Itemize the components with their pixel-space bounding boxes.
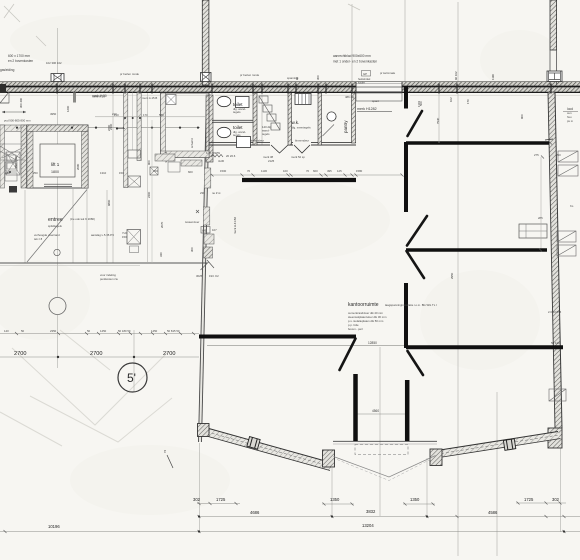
svg-text:2400: 2400: [147, 191, 151, 198]
svg-text:2350: 2350: [50, 329, 57, 333]
svg-text:170: 170: [466, 99, 470, 104]
svg-text:2070: 2070: [160, 221, 164, 228]
svg-text:300 400: 300 400: [19, 97, 23, 108]
svg-text:50: 50: [21, 329, 25, 333]
svg-text:210: 210: [114, 113, 119, 117]
svg-text:300: 300: [316, 75, 320, 80]
svg-text:spikittegels: spikittegels: [48, 224, 62, 228]
svg-text:50 120: 50 120: [551, 341, 560, 345]
svg-text:107: 107: [212, 228, 217, 232]
svg-text:aanrechtblad 900x600 mm: aanrechtblad 900x600 mm: [333, 54, 371, 58]
svg-text:1725: 1725: [216, 497, 226, 502]
svg-text:1800: 1800: [51, 170, 59, 174]
svg-text:1200: 1200: [66, 105, 70, 112]
svg-text:gasleiding: gasleiding: [0, 68, 15, 72]
svg-text:pantry: pantry: [343, 120, 348, 133]
svg-text:70: 70: [247, 169, 251, 173]
svg-text:(zie ook tek K 2080): (zie ook tek K 2080): [70, 217, 95, 221]
svg-text:4x30: 4x30: [218, 159, 225, 163]
svg-text:285: 285: [538, 216, 543, 220]
svg-text:1103: 1103: [417, 101, 421, 107]
svg-text:1190: 1190: [491, 74, 495, 80]
svg-text:250: 250: [33, 171, 38, 175]
svg-text:ps m: ps m: [567, 119, 574, 123]
svg-text:2200: 2200: [107, 124, 111, 131]
svg-text:dlg. meertegels: dlg. meertegels: [292, 126, 312, 130]
svg-text:5': 5': [127, 371, 136, 385]
svg-text:302: 302: [552, 497, 560, 502]
svg-text:4950: 4950: [50, 112, 57, 116]
svg-text:aanslag L.5.35.P.5: aanslag L.5.35.P.5: [91, 233, 114, 237]
svg-text:kantoorruimte: kantoorruimte: [348, 302, 379, 308]
svg-text:merk 52 sp: merk 52 sp: [291, 155, 305, 159]
svg-text:275: 275: [534, 153, 539, 157]
svg-text:2950: 2950: [450, 272, 454, 279]
svg-text:100: 100: [283, 169, 288, 173]
svg-text:102: 102: [449, 97, 453, 102]
svg-text:50 815 50: 50 815 50: [167, 329, 180, 333]
svg-text:600 x 1700 mm: 600 x 1700 mm: [8, 54, 30, 58]
svg-text:1725: 1725: [524, 497, 534, 502]
svg-text:pvd 900-805-800 mm: pvd 900-805-800 mm: [4, 119, 31, 123]
svg-text:96 102: 96 102: [454, 71, 458, 80]
svg-text:4560: 4560: [372, 409, 379, 413]
svg-text:1350: 1350: [410, 497, 420, 502]
svg-text:schacht: schacht: [190, 138, 194, 148]
svg-text:1310: 1310: [100, 171, 107, 175]
svg-text:50: 50: [87, 329, 91, 333]
svg-text:2080: 2080: [76, 163, 80, 170]
svg-text:spanning: spanning: [287, 76, 299, 80]
svg-text:13204: 13204: [362, 523, 374, 528]
svg-text:en 2 bovenkosten: en 2 bovenkosten: [8, 59, 33, 63]
svg-text:binnendeur: binnendeur: [250, 139, 264, 143]
svg-text:1130: 1130: [261, 169, 267, 173]
svg-text:fro: fro: [570, 204, 574, 208]
svg-text:102 306 102: 102 306 102: [46, 61, 62, 65]
svg-text:600: 600: [188, 170, 193, 174]
svg-text:50 180 50: 50 180 50: [118, 329, 131, 333]
svg-text:2125: 2125: [268, 159, 275, 163]
svg-text:4586: 4586: [488, 510, 498, 515]
svg-text:9800: 9800: [107, 199, 111, 206]
svg-text:238: 238: [200, 191, 205, 195]
svg-text:penikosten zie: penikosten zie: [100, 277, 118, 281]
svg-text:w.k.: w.k.: [292, 120, 300, 125]
svg-text:300: 300: [190, 247, 194, 252]
svg-text:tegels: tegels: [233, 110, 241, 114]
svg-text:merk H1282: merk H1282: [357, 107, 377, 111]
svg-text:900: 900: [520, 114, 524, 119]
svg-text:met 1 onder- en 2 bovenkasten: met 1 onder- en 2 bovenkasten: [333, 60, 377, 64]
svg-text:495: 495: [327, 169, 332, 173]
svg-text:1350: 1350: [330, 497, 340, 502]
svg-text:486 stg: 486 stg: [345, 95, 355, 99]
svg-text:580: 580: [159, 113, 164, 117]
svg-text:1450: 1450: [151, 329, 158, 333]
svg-text:binnendeur: binnendeur: [295, 139, 309, 143]
svg-text:900: 900: [147, 160, 151, 165]
svg-text:140: 140: [4, 329, 9, 333]
svg-text:boven - peil: boven - peil: [348, 327, 363, 331]
svg-text:tegels: tegels: [262, 132, 270, 136]
svg-text:pr kelmmale: pr kelmmale: [380, 71, 396, 75]
svg-text:1450: 1450: [100, 329, 107, 333]
svg-text:1500: 1500: [220, 169, 227, 173]
svg-text:tek z 8: tek z 8: [34, 237, 43, 241]
svg-text:laagspanninginstallatie i.o.: laagspanninginstallatie i.o.m. BG WG TL …: [385, 303, 437, 307]
svg-text:merk H.41.B2: merk H.41.B2: [233, 216, 237, 234]
svg-text:3025: 3025: [196, 274, 203, 278]
svg-text:ne # st: ne # st: [212, 191, 221, 195]
svg-text:2700: 2700: [14, 351, 26, 357]
svg-text:250: 250: [556, 153, 561, 157]
svg-text:70: 70: [306, 169, 310, 173]
svg-text:4686: 4686: [250, 510, 260, 515]
svg-text:193. K2: 193. K2: [209, 274, 219, 278]
svg-text:lift 1: lift 1: [51, 162, 60, 167]
svg-text:WB: WB: [202, 229, 207, 233]
svg-text:tussenvloer: tussenvloer: [185, 220, 199, 224]
svg-text:entree: entree: [48, 217, 63, 223]
svg-text:pr berlen ronde: pr berlen ronde: [120, 72, 139, 76]
svg-text:spant: spant: [372, 99, 379, 103]
svg-text:merk A.15.B: merk A.15.B: [142, 96, 157, 100]
svg-text:tegels: tegels: [233, 133, 241, 137]
svg-text:2700: 2700: [163, 351, 175, 357]
svg-text:kader: kader: [358, 81, 365, 85]
svg-text:1580: 1580: [356, 169, 363, 173]
svg-text:125: 125: [337, 169, 342, 173]
svg-text:150: 150: [122, 235, 127, 239]
svg-text:74: 74: [163, 449, 167, 453]
svg-text:302: 302: [193, 497, 201, 502]
svg-text:600: 600: [313, 169, 318, 173]
svg-text:7940: 7940: [436, 117, 440, 124]
svg-text:340: 340: [159, 252, 163, 257]
svg-text:3832: 3832: [366, 509, 376, 514]
svg-text:GP: GP: [363, 72, 367, 76]
svg-text:pr berten ronde: pr berten ronde: [240, 73, 260, 77]
svg-text:2700: 2700: [90, 351, 102, 357]
svg-text:merk H.50: merk H.50: [92, 95, 105, 99]
svg-text:10196: 10196: [48, 524, 60, 529]
svg-text:12850: 12850: [368, 341, 377, 345]
svg-text:2.0 20 855: 2.0 20 855: [548, 310, 562, 314]
svg-text:20 20.6: 20 20.6: [226, 154, 236, 158]
